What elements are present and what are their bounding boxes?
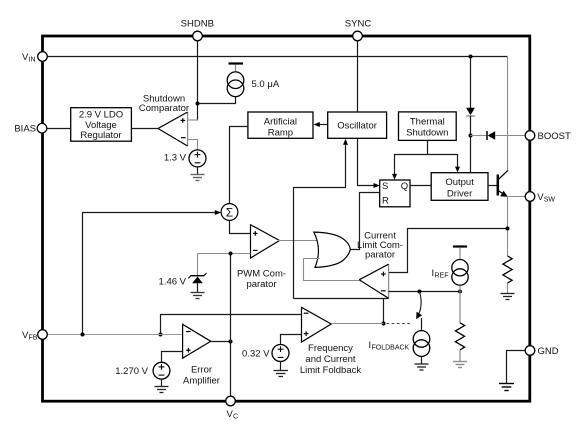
ground below 1.3V — [191, 167, 205, 181]
block thermal shutdown — [399, 112, 457, 140]
node SHDNB / 5uA junction — [196, 102, 200, 106]
current source IREF — [452, 247, 468, 292]
node IREF junction — [458, 290, 462, 294]
voltage source 0.32V — [272, 345, 289, 362]
wire VSW node down to sense resistor — [507, 197, 509, 257]
svg-text:Σ: Σ — [226, 206, 233, 220]
svg-text:1.46 V: 1.46 V — [159, 277, 187, 288]
pin GND — [525, 346, 559, 358]
svg-text:Q: Q — [401, 181, 408, 192]
svg-text:parator: parator — [365, 250, 395, 261]
wire foldback output branch vertical — [383, 299, 385, 324]
wire PWM minus / 1.46V clamp — [198, 254, 251, 276]
wire diode D2 to BOOST pin — [495, 135, 525, 137]
ground below resistor R1 — [453, 362, 467, 368]
wire 5uA source to SHDNB node — [198, 97, 236, 104]
svg-text:Limit Foldback: Limit Foldback — [300, 365, 361, 376]
ground below zener — [191, 293, 205, 299]
ground below 0.32V — [274, 362, 289, 377]
wire latch Q to output driver — [410, 185, 431, 187]
resistor R2 below VSW — [503, 256, 512, 293]
OR gate — [314, 232, 351, 267]
block output driver — [431, 173, 488, 201]
wire boost node to diode D2 — [471, 135, 487, 137]
wire SYNC vertical — [357, 41, 359, 112]
ground below 1.270V — [155, 379, 169, 392]
svg-text:Oscillator: Oscillator — [337, 121, 377, 132]
node VIN rail / diode junction — [469, 55, 473, 59]
wire artificial ramp to summer — [230, 127, 248, 204]
svg-text:Amplifier: Amplifier — [183, 376, 220, 387]
wire PWM output to OR gate — [278, 240, 319, 242]
wire output driver to transistor base — [488, 185, 497, 187]
node foldback output junction — [382, 322, 386, 326]
svg-text:Comparator: Comparator — [139, 103, 189, 114]
voltage source 1.270V — [153, 362, 170, 379]
IC boundary border — [43, 36, 530, 401]
wire foldback plus to 0.32V — [281, 335, 302, 345]
wire oscillator to latch S input with arrow — [358, 138, 380, 188]
wire BIAS to LDO — [47, 128, 71, 130]
node boost junction — [469, 134, 473, 138]
op-amp frequency and current limit foldback — [302, 307, 332, 342]
svg-text:Shutdown: Shutdown — [406, 128, 448, 139]
wire OR gate output to latch R input — [350, 193, 379, 250]
wire GND pin to ground — [507, 351, 526, 384]
svg-text:0.32 V: 0.32 V — [242, 349, 270, 360]
pin SYNC — [345, 19, 372, 41]
wire VFB line — [47, 334, 183, 336]
wire error amp output to VC — [211, 341, 231, 343]
node error amp output / VC — [229, 340, 233, 344]
svg-text:BOOST: BOOST — [538, 131, 571, 142]
svg-text:and Current: and Current — [305, 354, 356, 365]
svg-text:Output: Output — [445, 177, 474, 188]
wire VC vertical — [230, 254, 232, 399]
svg-text:SYNC: SYNC — [345, 19, 372, 30]
svg-text:Regulator: Regulator — [80, 130, 121, 141]
wire summer to PWM comparator plus — [230, 220, 251, 233]
svg-text:Ramp: Ramp — [268, 127, 293, 138]
pin VFB — [22, 330, 47, 342]
svg-text:parator: parator — [246, 279, 276, 290]
wire current limit comparator output to OR gate lower input — [304, 259, 360, 281]
wire oscillator to artificial ramp with arrow — [314, 122, 328, 127]
wire PWM output feedback to oscillator with arrow — [294, 139, 349, 299]
wire boost diode to output driver — [470, 116, 472, 173]
wire sense node to current limit comparator plus — [389, 229, 508, 273]
voltage source 1.3V — [189, 150, 206, 167]
wire shutdown comparator minus to 1.3V — [188, 140, 198, 151]
block oscillator — [328, 112, 387, 138]
svg-text:Driver: Driver — [447, 188, 472, 199]
svg-text:SW: SW — [544, 197, 556, 204]
wire collector to VIN rail — [507, 57, 509, 171]
pin VC — [226, 396, 238, 420]
svg-text:FOLDBACK: FOLDBACK — [372, 345, 410, 352]
resistor R1 below IREF node — [455, 292, 464, 362]
svg-text:C: C — [233, 414, 238, 421]
node VFB summer branch — [81, 333, 85, 337]
svg-text:SHDNB: SHDNB — [181, 19, 214, 30]
pin BIAS — [14, 123, 46, 134]
svg-text:GND: GND — [538, 346, 559, 357]
wire error amp plus to 1.270V — [162, 352, 183, 363]
node foldback arrow junction — [418, 290, 422, 294]
svg-text:BIAS: BIAS — [14, 124, 36, 135]
block LDO 2.9V voltage regulator — [71, 108, 132, 142]
zener diode 1.46V — [188, 273, 206, 292]
transistor Q1 — [498, 170, 508, 197]
pin SHDNB — [181, 19, 214, 41]
wire foldback control dashed — [387, 323, 412, 325]
wire LDO to shutdown comparator — [131, 128, 158, 130]
block SR latch U2 — [380, 180, 410, 207]
node current sense junction — [506, 227, 510, 231]
svg-text:1.270 V: 1.270 V — [115, 366, 148, 377]
op-amp current limit comparator — [359, 264, 388, 298]
op-amp PWM comparator — [251, 225, 280, 258]
svg-text:Error: Error — [191, 365, 212, 376]
ground below IFOLDBACK — [415, 364, 429, 370]
wire foldback line to current limit comparator corner — [294, 298, 389, 300]
svg-text:1.3 V: 1.3 V — [164, 153, 187, 164]
svg-text:Artificial: Artificial — [264, 116, 297, 127]
wire emitter to VSW pin — [507, 196, 526, 198]
summing node sigma — [221, 204, 238, 221]
svg-text:S: S — [382, 181, 388, 192]
svg-text:FB: FB — [29, 335, 38, 342]
op-amp shutdown comparator — [158, 112, 188, 146]
diode D1 vertical — [466, 108, 475, 116]
wire foldback output to dashed node — [331, 323, 383, 325]
svg-text:PWM Com-: PWM Com- — [237, 269, 286, 280]
ground below resistor R2 — [501, 294, 515, 300]
pin VIN — [22, 52, 47, 64]
op-amp error amplifier — [183, 324, 211, 358]
wire SHDNB net vertical — [188, 41, 198, 120]
svg-text:Thermal: Thermal — [410, 117, 445, 128]
svg-text:Frequency: Frequency — [308, 343, 353, 354]
wire thermal shutdown to latch and output driver with arrows — [392, 140, 460, 179]
wire top rail to boost diode — [470, 57, 472, 109]
wire VFB branch up to summer with arrow — [83, 210, 222, 335]
node VFB foldback branch — [159, 333, 163, 337]
svg-text:5.0 μA: 5.0 μA — [252, 79, 280, 90]
ground at GND pin — [499, 384, 514, 391]
diode D2 horizontal — [487, 131, 495, 140]
current source I1 5.0uA — [227, 64, 244, 97]
pin VSW — [525, 192, 555, 204]
wire current limit minus to IREF — [389, 291, 460, 293]
svg-text:IN: IN — [29, 57, 36, 64]
current source IFOLDBACK — [413, 318, 430, 364]
pin BOOST — [525, 131, 571, 142]
wire VIN rail — [47, 56, 508, 58]
node PWM minus / VC junction — [229, 252, 233, 256]
block artificial ramp — [248, 112, 313, 138]
wire foldback minus input from VFB — [161, 315, 302, 335]
svg-text:REF: REF — [435, 273, 449, 280]
curved control arrow to IFOLDBACK — [416, 292, 422, 319]
svg-text:R: R — [382, 195, 389, 206]
